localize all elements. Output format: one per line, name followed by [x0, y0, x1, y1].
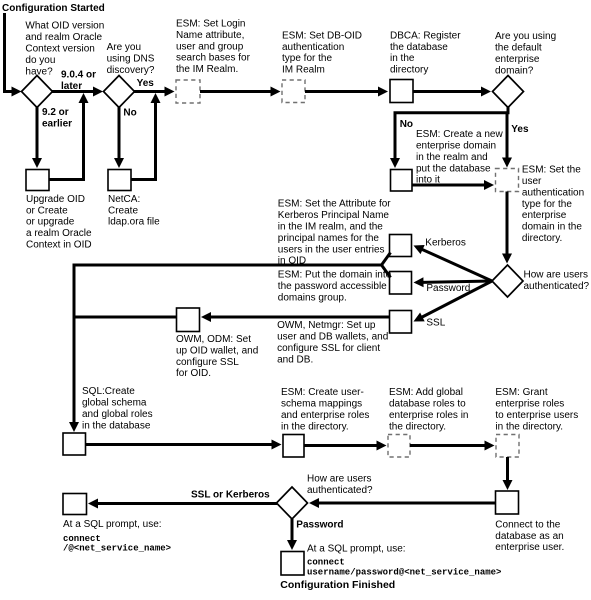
svg-text:Kerberos Principal Name: Kerberos Principal Name [278, 210, 390, 221]
svg-text:in the database: in the database [82, 420, 151, 431]
svg-text:global schema: global schema [82, 398, 147, 409]
svg-text:Context in OID: Context in OID [26, 240, 92, 251]
svg-text:authenticated?: authenticated? [524, 281, 590, 292]
svg-text:user and group: user and group [176, 41, 244, 52]
svg-text:up OID wallet, and: up OID wallet, and [176, 345, 258, 356]
svg-text:in the IM realm, and the: in the IM realm, and the [278, 222, 383, 233]
svg-text:type for the: type for the [282, 53, 332, 64]
svg-text:ESM: Set the: ESM: Set the [522, 165, 581, 176]
svg-text:No: No [123, 107, 136, 118]
svg-text:ESM: Add global: ESM: Add global [389, 387, 463, 398]
wire: No branch down to B4 [394, 113, 397, 159]
svg-text:Context version: Context version [25, 44, 94, 55]
svg-text:ESM: Create a new: ESM: Create a new [416, 129, 503, 140]
svg-text:for OID.: for OID. [176, 368, 211, 379]
svg-text:authenticated?: authenticated? [307, 485, 373, 496]
process B10: create user-schema mappings [283, 435, 304, 458]
wire: B2 return up to main line [131, 103, 156, 180]
svg-text:in the directory.: in the directory. [495, 421, 563, 432]
process B3: DBCA register database [390, 80, 413, 103]
dashed step DB3: Set user auth type [496, 169, 519, 192]
decision D3: default enterprise domain [493, 76, 524, 108]
svg-text:in the: in the [390, 53, 415, 64]
process B5: Kerberos box [390, 235, 412, 257]
svg-text:principal names for the: principal names for the [278, 233, 380, 244]
wire: B5 join diagonal [382, 253, 391, 266]
wire: DB5 down to B11 [506, 457, 509, 481]
svg-text:put the database: put the database [416, 163, 491, 174]
svg-text:and global roles: and global roles [82, 409, 153, 420]
wire: Yes branch down to DB3 [506, 113, 509, 159]
svg-text:Connect to the: Connect to the [495, 519, 560, 530]
svg-text:schema mappings: schema mappings [281, 399, 362, 410]
process B8: SQL create global schema [63, 433, 86, 455]
svg-text:Are you using: Are you using [495, 31, 556, 42]
svg-text:enterprise roles: enterprise roles [495, 399, 564, 410]
svg-text:the password accessible: the password accessible [278, 281, 387, 292]
svg-text:9.2 or: 9.2 or [42, 107, 69, 118]
svg-text:Password: Password [426, 283, 470, 294]
svg-text:authentication: authentication [282, 42, 344, 53]
svg-text:What OID version: What OID version [25, 21, 104, 32]
process B9: OWM ODM wallet [177, 308, 200, 332]
decision D5: How are users authenticated (bottom) [277, 487, 308, 519]
process B4: Create enterprise domain [391, 170, 413, 192]
svg-text:domain in the: domain in the [522, 222, 582, 233]
svg-text:ESM: Put the domain into: ESM: Put the domain into [278, 270, 392, 281]
process B2: NetCA create ldap.ora [108, 170, 131, 191]
wire: D3 bottom tee [507, 106, 510, 113]
svg-text:authentication: authentication [522, 187, 584, 198]
svg-text:enterprise: enterprise [522, 210, 567, 221]
svg-text:discovery?: discovery? [107, 65, 155, 76]
svg-text:ldap.ora file: ldap.ora file [108, 217, 160, 228]
svg-text:Create: Create [108, 205, 138, 216]
svg-text:configure SSL: configure SSL [176, 357, 239, 368]
svg-text:enterprise roles in: enterprise roles in [389, 410, 468, 421]
svg-text:enterprise: enterprise [495, 54, 540, 65]
svg-text:How are users: How are users [524, 270, 588, 281]
process B6: Password box [390, 272, 412, 295]
process B12: SQL prompt connect [63, 494, 87, 515]
wire: B11 to D5 [318, 502, 496, 505]
decision D1: What OID version [22, 76, 53, 108]
svg-text:DBCA: Register: DBCA: Register [390, 30, 461, 41]
svg-text:enterprise user.: enterprise user. [495, 542, 564, 553]
svg-text:have?: have? [25, 66, 53, 77]
svg-text:At a SQL prompt, use:: At a SQL prompt, use: [63, 519, 162, 530]
process B7: SSL box [390, 311, 412, 334]
svg-text:user and DB wallets, and: user and DB wallets, and [277, 332, 388, 343]
svg-text:earlier: earlier [42, 119, 72, 130]
svg-text:ESM: Set the Attribute for: ESM: Set the Attribute for [278, 199, 392, 210]
svg-text:the directory.: the directory. [389, 421, 446, 432]
svg-text:using DNS: using DNS [107, 54, 155, 65]
svg-text:How are users: How are users [307, 474, 371, 485]
svg-text:directory.: directory. [522, 233, 562, 244]
wire: DB1 to DB2 [200, 90, 272, 93]
svg-text:Configuration Started: Configuration Started [2, 3, 105, 14]
svg-text:in the realm and: in the realm and [416, 152, 488, 163]
svg-text:ESM: Set DB-OID: ESM: Set DB-OID [282, 30, 362, 41]
wire: D5 to B12 (SSL or Kerberos) [97, 502, 277, 505]
decision D4: How are users authenticated [492, 265, 523, 297]
wire: DB3 down to D4 [506, 192, 509, 255]
svg-text:database as an: database as an [495, 531, 563, 542]
svg-text:Configuration Finished: Configuration Finished [280, 579, 395, 591]
svg-text:database roles to: database roles to [389, 399, 466, 410]
wire: B10 to DB4 [304, 444, 378, 447]
wire: DB4 to DB5 [410, 444, 486, 447]
svg-text:/@<net_service_name>: /@<net_service_name> [63, 544, 171, 554]
svg-text:enterprise domain: enterprise domain [416, 141, 496, 152]
wire: D4 to B7 (SSL) [421, 281, 492, 317]
wire: B8 to B10 [86, 443, 273, 446]
svg-text:or Create: or Create [26, 205, 68, 216]
svg-text:OWM, ODM: Set: OWM, ODM: Set [176, 334, 251, 345]
svg-text:search bases for: search bases for [176, 53, 251, 64]
svg-text:a realm Oracle: a realm Oracle [26, 228, 92, 239]
svg-text:At a SQL prompt, use:: At a SQL prompt, use: [307, 543, 406, 554]
svg-text:Kerberos: Kerberos [425, 238, 466, 249]
wire: D5 down to B13 (Password) [291, 519, 294, 541]
svg-text:No: No [400, 119, 413, 130]
wire: D2 to DB1 (Yes) [134, 90, 166, 93]
wire: B9 to left column [74, 316, 177, 319]
process B13: SQL prompt connect user/pass [281, 552, 304, 576]
svg-text:user: user [522, 176, 542, 187]
wire: B3 to D3 [413, 90, 482, 93]
svg-text:SSL: SSL [426, 318, 445, 329]
wire: D1 to D2 (9.0.4 or later) [52, 90, 94, 93]
svg-text:SQL:Create: SQL:Create [82, 386, 135, 397]
decision D2: using DNS discovery [104, 76, 135, 108]
dashed step DB2: Set DB-OID auth [282, 80, 305, 103]
wire: D1 down to B1 [36, 106, 39, 159]
svg-text:NetCA:: NetCA: [108, 194, 140, 205]
wire: left column down to B8 [73, 264, 76, 424]
svg-text:the IM Realm.: the IM Realm. [176, 64, 238, 75]
dashed step DB1: Set Login Name [176, 80, 200, 103]
wire: B1 return up to main line [49, 103, 84, 180]
svg-text:and realm Oracle: and realm Oracle [25, 32, 102, 43]
wire: D4 to B6 (Password) [422, 281, 492, 282]
svg-text:IM Realm: IM Realm [282, 65, 325, 76]
svg-text:connect: connect [63, 534, 101, 544]
svg-text:Yes: Yes [137, 78, 155, 89]
dashed step DB4: add global database roles [388, 435, 410, 458]
svg-text:the default: the default [495, 43, 542, 54]
svg-text:and DB.: and DB. [277, 354, 313, 365]
svg-text:ESM: Create user-: ESM: Create user- [281, 387, 364, 398]
svg-text:OWM, Netmgr: Set up: OWM, Netmgr: Set up [277, 320, 376, 331]
svg-text:Yes: Yes [511, 124, 529, 135]
svg-text:the database: the database [390, 42, 448, 53]
svg-text:configure SSL for client: configure SSL for client [277, 343, 380, 354]
svg-text:and enterprise roles: and enterprise roles [281, 410, 369, 421]
svg-text:connect: connect [307, 557, 345, 567]
wire: start into D1 [5, 13, 14, 92]
wire: B4 to DB3 [412, 184, 485, 187]
wire: D2 down to B2 [118, 106, 121, 159]
svg-text:Name attribute,: Name attribute, [176, 30, 244, 41]
wire: D4 to B5 (Kerberos) [422, 249, 492, 281]
svg-text:Are you: Are you [107, 42, 141, 53]
svg-text:type for the: type for the [522, 199, 572, 210]
svg-text:Password: Password [296, 519, 343, 530]
wire: merge line left [73, 264, 382, 267]
svg-text:directory: directory [390, 65, 428, 76]
dashed step DB5: grant enterprise roles [496, 435, 519, 458]
svg-text:or upgrade: or upgrade [26, 217, 75, 228]
svg-text:ESM: Grant: ESM: Grant [495, 387, 547, 398]
svg-text:domain?: domain? [495, 65, 534, 76]
svg-text:to enterprise users: to enterprise users [495, 410, 578, 421]
svg-text:Upgrade OID: Upgrade OID [26, 194, 85, 205]
process B1: Upgrade OID [26, 170, 49, 191]
svg-text:in the directory.: in the directory. [281, 421, 349, 432]
svg-text:username/password@<net_service: username/password@<net_service_name> [307, 568, 501, 578]
svg-text:domains group.: domains group. [278, 293, 347, 304]
svg-text:users in the user entries: users in the user entries [278, 244, 385, 255]
svg-text:do you: do you [25, 55, 55, 66]
process B11: connect to database [496, 491, 519, 514]
svg-text:ESM: Set Login: ESM: Set Login [176, 19, 245, 30]
wire: B7 to B9 [210, 316, 390, 319]
wire: B6 join diagonal [382, 265, 391, 278]
wire: DB2 to B3 [305, 90, 379, 93]
svg-text:SSL or Kerberos: SSL or Kerberos [191, 490, 270, 501]
svg-text:9.0.4 or: 9.0.4 or [61, 70, 96, 81]
